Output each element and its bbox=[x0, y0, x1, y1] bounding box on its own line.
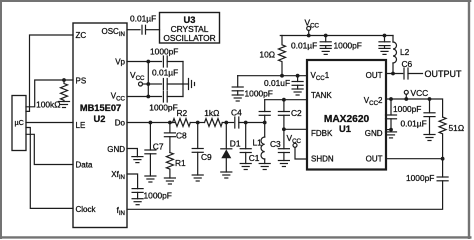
ground 0.01uF vcc1 bbox=[292, 89, 303, 95]
wire vcc left bus bbox=[147, 62, 149, 97]
wire cap to U3 bbox=[146, 29, 160, 31]
svg-text:TANK: TANK bbox=[311, 91, 332, 100]
svg-text:C1: C1 bbox=[249, 153, 260, 163]
svg-text:µC: µC bbox=[15, 118, 24, 127]
svg-text:OUTPUT: OUTPUT bbox=[425, 69, 463, 79]
svg-text:ZC: ZC bbox=[76, 31, 87, 40]
svg-text:D1: D1 bbox=[230, 139, 241, 149]
svg-text:LE: LE bbox=[76, 121, 86, 130]
svg-text:1000pF: 1000pF bbox=[393, 104, 421, 114]
svg-text:0.01µF: 0.01µF bbox=[291, 41, 317, 51]
wire ZC from U2 to uC bbox=[26, 35, 73, 111]
ground L1 bbox=[259, 164, 270, 170]
svg-text:L1: L1 bbox=[253, 138, 263, 148]
node gnd bbox=[389, 128, 393, 132]
wire top cap to bus bbox=[167, 61, 183, 63]
wire right bus bbox=[182, 62, 184, 97]
svg-text:GND: GND bbox=[107, 145, 125, 154]
wire U2 GND pin bbox=[127, 149, 137, 157]
ground C1 bbox=[240, 164, 251, 170]
node vcc2 b bbox=[404, 97, 408, 101]
node cap 0.01 top bbox=[324, 34, 328, 38]
terminal VCC right bbox=[404, 88, 428, 99]
wire Data bbox=[26, 134, 73, 164]
wire OUT top bbox=[386, 73, 403, 75]
node C7 bbox=[149, 121, 153, 125]
node L1 top bbox=[263, 121, 267, 125]
ground U1 gnd bbox=[386, 132, 397, 138]
node Vp bbox=[146, 60, 150, 64]
resistor R2 bbox=[173, 108, 191, 126]
capacitor 0.01uF osc bbox=[130, 14, 156, 35]
ground C3 bbox=[278, 161, 289, 167]
ground 0.01uF top rail bbox=[320, 48, 331, 54]
capacitor C4 bbox=[231, 107, 242, 128]
wire OSCIN bbox=[127, 29, 140, 31]
wire mid cap to bus bbox=[167, 83, 183, 85]
node FDBK bbox=[282, 127, 286, 131]
IC U2 MB15E07 box bbox=[73, 23, 127, 228]
capacitor series tank (above L1) bbox=[259, 100, 270, 123]
wire PS from U2 to uC bbox=[26, 80, 73, 107]
capacitor 1000pF vcc1 bbox=[232, 76, 273, 99]
ground 1000pF vcc1 bbox=[232, 95, 243, 101]
wire VCC pin row bbox=[127, 96, 162, 98]
microcontroller box uC bbox=[12, 96, 26, 151]
ground xfin bbox=[132, 199, 143, 205]
capacitor 1000pF bottom bbox=[149, 91, 177, 113]
svg-text:FDBK: FDBK bbox=[311, 129, 333, 138]
ground D1 bbox=[221, 172, 232, 178]
svg-text:MB15E07: MB15E07 bbox=[80, 103, 121, 113]
svg-text:C2: C2 bbox=[291, 108, 302, 118]
svg-text:VCC: VCC bbox=[411, 88, 429, 98]
capacitor 1000pF top rail bbox=[334, 36, 391, 51]
node OUT/L2 bbox=[391, 72, 395, 76]
svg-text:0.01µF: 0.01µF bbox=[130, 14, 156, 24]
svg-text:1000pF: 1000pF bbox=[245, 89, 273, 99]
capacitor C9 bbox=[192, 123, 212, 176]
svg-text:R1: R1 bbox=[175, 158, 186, 168]
svg-text:C4: C4 bbox=[231, 107, 242, 117]
svg-text:C3: C3 bbox=[270, 139, 281, 149]
ground 1000pF top rail bbox=[379, 48, 390, 54]
svg-text:1000pF: 1000pF bbox=[149, 103, 177, 113]
capacitor 1000pF vcc2 bbox=[386, 99, 422, 132]
node 0.01uF vcc1 bbox=[296, 74, 300, 78]
terminal VCC u2 bbox=[130, 70, 148, 86]
capacitor C6 bbox=[402, 59, 413, 79]
node cap 1000 top bbox=[383, 34, 387, 38]
svg-text:L2: L2 bbox=[400, 47, 410, 57]
svg-text:SHDN: SHDN bbox=[311, 155, 334, 164]
node D1 bbox=[224, 121, 228, 125]
resistor 51ohm bbox=[439, 117, 464, 159]
wire C6 to output bbox=[408, 73, 423, 75]
svg-text:1000pF: 1000pF bbox=[144, 191, 172, 201]
capacitor 1000pF out bbox=[406, 159, 448, 183]
wire VCC top rail bbox=[282, 35, 393, 37]
ground under 100k bbox=[59, 102, 70, 108]
svg-text:PS: PS bbox=[76, 77, 87, 86]
capacitor C7 bbox=[145, 123, 164, 177]
resistor 100k bbox=[36, 80, 67, 110]
resistor 1k bbox=[204, 108, 222, 126]
svg-text:R2: R2 bbox=[176, 108, 187, 118]
svg-text:51Ω: 51Ω bbox=[449, 123, 465, 133]
ground C9 bbox=[192, 175, 203, 181]
svg-text:Vp: Vp bbox=[115, 58, 125, 67]
svg-text:C8: C8 bbox=[176, 131, 187, 141]
node vcc2 c bbox=[428, 97, 432, 101]
capacitor C3 bbox=[270, 129, 289, 160]
crystal oscillator box U3 bbox=[160, 13, 220, 44]
resistor 10ohm bbox=[259, 36, 285, 76]
capacitor 1000pF xfin bbox=[132, 189, 172, 201]
svg-text:U1: U1 bbox=[339, 124, 351, 134]
wire FDBK bbox=[284, 128, 307, 130]
svg-text:OUT: OUT bbox=[366, 71, 383, 80]
node C2 top bbox=[282, 98, 286, 102]
inductor L1 bbox=[253, 123, 265, 164]
capacitor C1 bbox=[240, 123, 260, 164]
node 10ohm bottom bbox=[280, 74, 284, 78]
svg-text:Data: Data bbox=[76, 161, 93, 170]
terminal VCC top bbox=[305, 18, 320, 36]
node C9 bbox=[196, 121, 200, 125]
svg-text:OUT: OUT bbox=[366, 155, 383, 164]
node C1 bbox=[244, 121, 248, 125]
inductor L2 bbox=[393, 36, 410, 74]
svg-text:C9: C9 bbox=[201, 152, 212, 162]
capacitor 0.01uF mid bbox=[152, 68, 178, 90]
svg-text:1000pF: 1000pF bbox=[150, 47, 178, 57]
wire Do row bbox=[127, 122, 175, 124]
diode D1 bbox=[221, 123, 241, 173]
svg-text:U2: U2 bbox=[94, 114, 106, 124]
svg-text:1000pF: 1000pF bbox=[334, 41, 362, 51]
node PS/R junction bbox=[62, 78, 66, 82]
wire Clock bbox=[26, 128, 73, 209]
capacitor 0.01uF vcc2 bbox=[401, 99, 436, 135]
svg-text:10Ω: 10Ω bbox=[259, 50, 275, 60]
svg-text:0.01uF: 0.01uF bbox=[264, 78, 290, 88]
capacitor C2 bbox=[278, 100, 302, 130]
wire mid row bbox=[148, 83, 161, 85]
node vcc pin bbox=[146, 95, 150, 99]
svg-text:Do: Do bbox=[115, 119, 126, 128]
node C8 bbox=[168, 121, 172, 125]
svg-text:1000pF: 1000pF bbox=[406, 173, 434, 183]
wire Vp row bbox=[127, 61, 162, 63]
ground C7 bbox=[145, 176, 156, 182]
wire XfIN bbox=[127, 174, 138, 189]
node vcc2 a bbox=[389, 97, 393, 101]
svg-text:OSCILLATOR: OSCILLATOR bbox=[163, 33, 215, 43]
svg-text:Clock: Clock bbox=[76, 205, 97, 214]
wire LE bbox=[26, 122, 73, 124]
ground R1 bbox=[164, 178, 175, 184]
node vcc top bbox=[307, 34, 311, 38]
svg-text:C7: C7 bbox=[153, 141, 164, 151]
capacitor 0.01uF vcc1 bbox=[264, 76, 303, 89]
wire TANK row bbox=[265, 99, 307, 101]
wire bottom cap to bus bbox=[167, 96, 183, 98]
capacitor 1000pF top bbox=[150, 47, 178, 67]
wire VCC1 row bbox=[238, 75, 307, 77]
wire OUT bottom bbox=[386, 158, 443, 160]
resistor R1 bbox=[166, 153, 186, 179]
wire VCC2 row bbox=[386, 99, 443, 117]
node out bottom bbox=[441, 157, 445, 161]
wire 1k to C4 bbox=[222, 122, 233, 124]
svg-text:100kΩ: 100kΩ bbox=[36, 100, 60, 110]
ground rotated right bbox=[189, 79, 195, 90]
ground 0.01uF vcc2 bbox=[424, 135, 435, 141]
wire bus to ground bbox=[183, 83, 189, 85]
ground U2 gnd bbox=[132, 157, 143, 163]
svg-text:0.01µF: 0.01µF bbox=[152, 68, 178, 78]
capacitor 0.01uF top rail bbox=[291, 36, 331, 51]
svg-text:GND: GND bbox=[365, 129, 383, 138]
wire U1 GND to ground bbox=[386, 129, 391, 131]
terminal VCC shdn bbox=[287, 133, 308, 159]
svg-text:0.01µF: 0.01µF bbox=[401, 119, 427, 129]
wire feedback bottom rail bbox=[127, 181, 443, 210]
wire C4 to tank node bbox=[239, 122, 265, 124]
svg-text:1kΩ: 1kΩ bbox=[204, 108, 219, 118]
wire R2 to R3 bbox=[190, 122, 204, 124]
svg-text:C6: C6 bbox=[402, 59, 413, 69]
IC U1 MAX2620 box bbox=[307, 60, 386, 170]
capacitor C8 bbox=[164, 123, 187, 153]
node mid bbox=[146, 82, 150, 86]
